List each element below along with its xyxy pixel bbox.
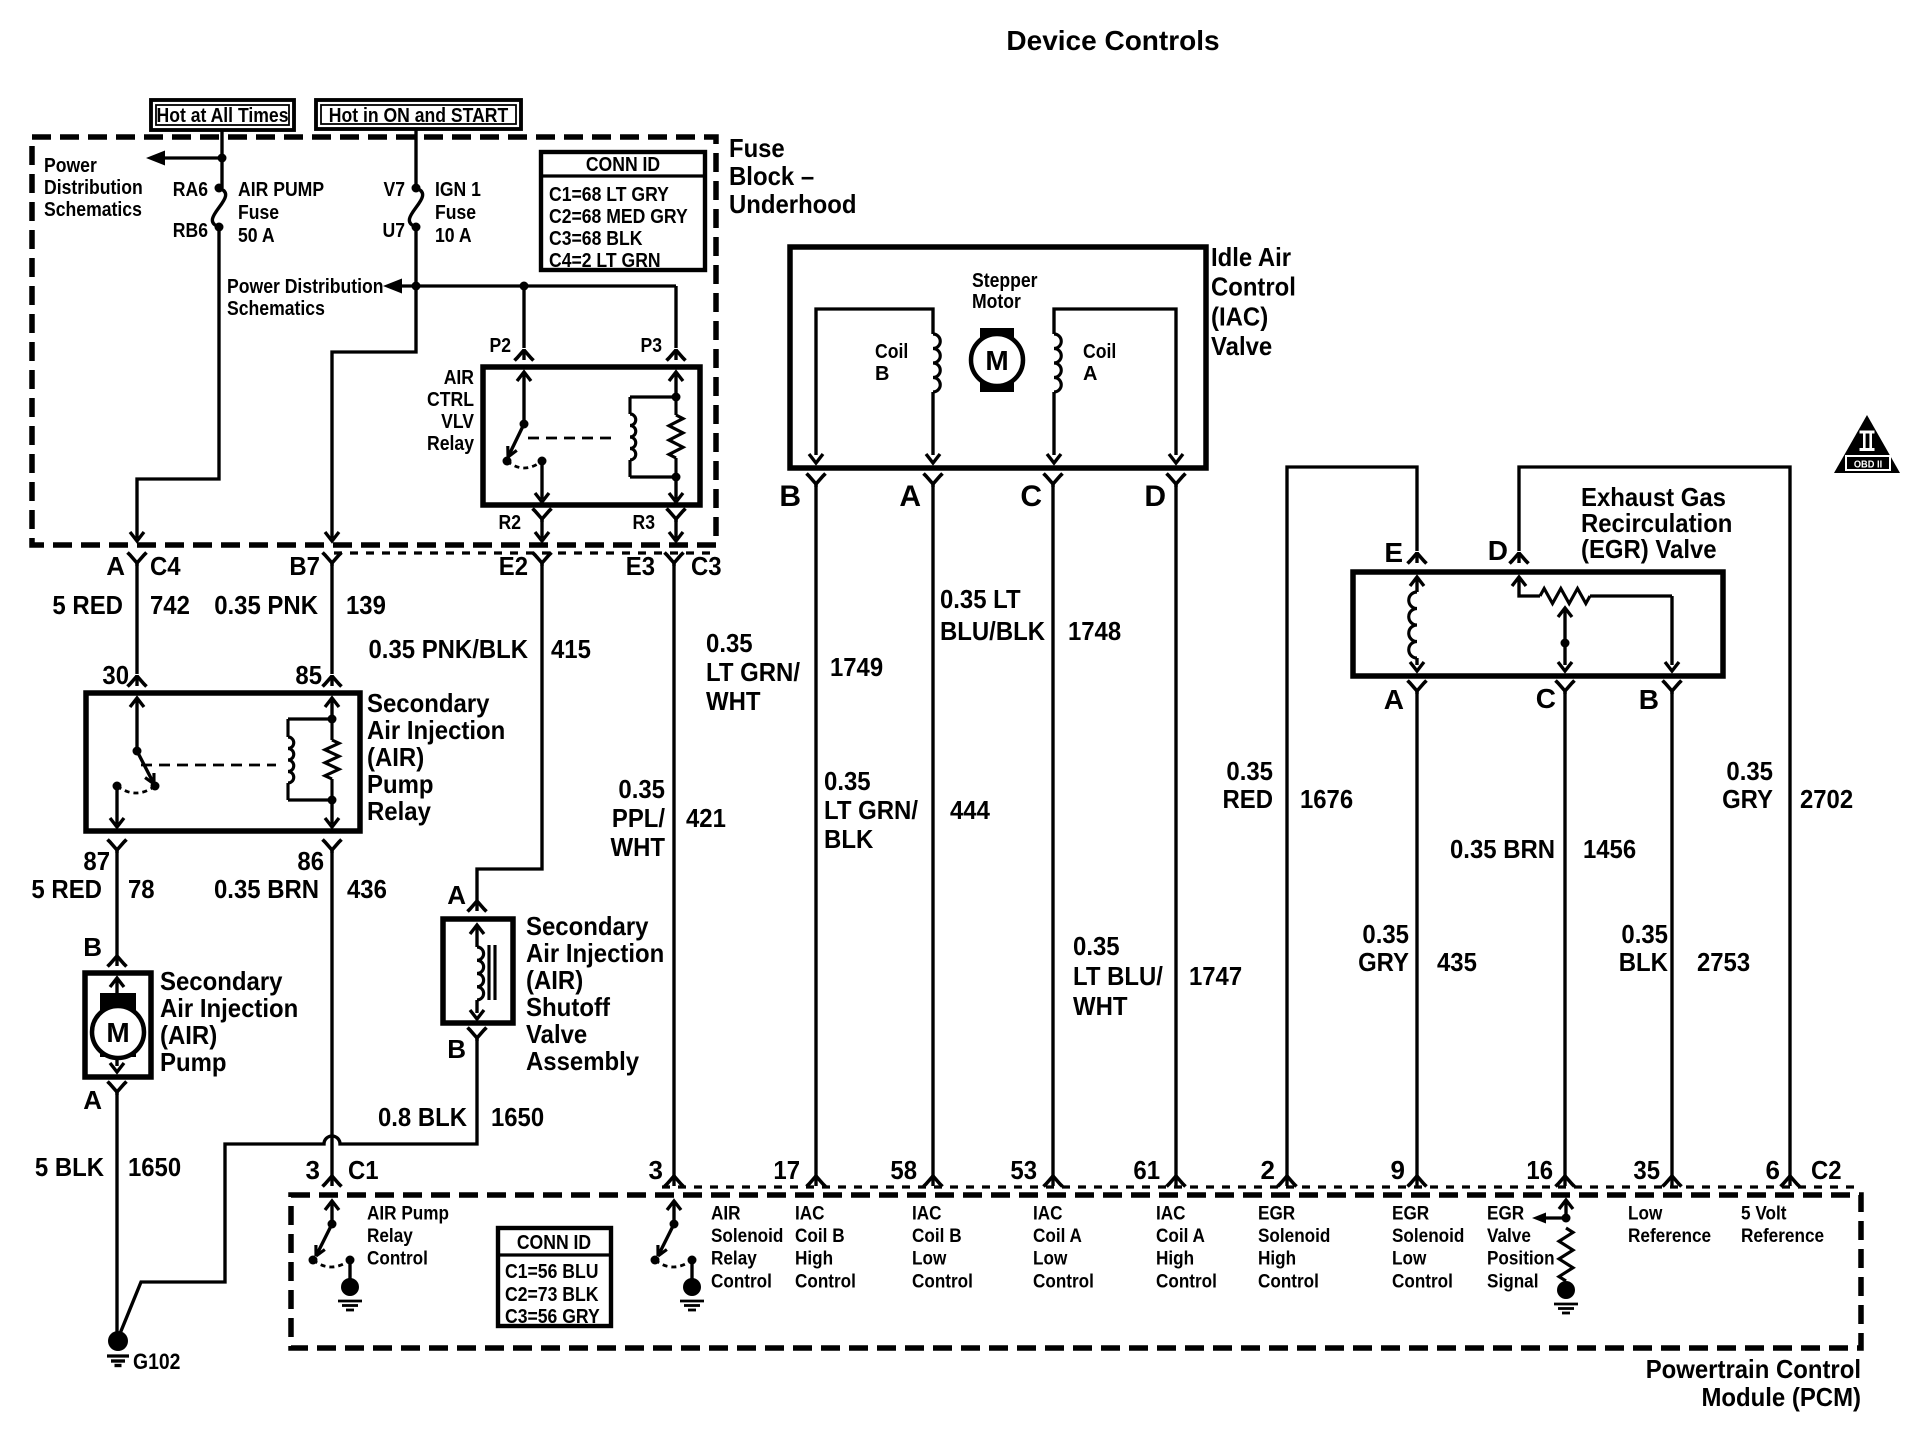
EGR position sensor wiper: [1558, 608, 1572, 671]
svg-text:RA6: RA6: [173, 179, 208, 201]
wire: 0.35 LT GRN/BLK 444 to PCM pin 58: [931, 484, 934, 1180]
svg-text:Schematics: Schematics: [227, 298, 325, 320]
label: Fuse Block - Underhood: [729, 133, 857, 219]
svg-text:0.35 PNK: 0.35 PNK: [214, 590, 318, 620]
label box: Hot in ON and START: [316, 100, 521, 129]
wire: coil bottom to pin 86: [325, 800, 339, 827]
svg-text:C1=56 BLU: C1=56 BLU: [505, 1261, 599, 1283]
svg-text:B: B: [779, 480, 801, 513]
svg-text:Coil B: Coil B: [912, 1225, 962, 1247]
wire: 0.8 BLK 1650 from shutoff valve to G102 (with hop over pin86 wire): [119, 1038, 477, 1336]
connector pin 58 at PCM: [890, 1155, 942, 1187]
label: IAC Coil A Low Control: [1033, 1203, 1094, 1293]
connector R2 below relay: [499, 509, 552, 542]
svg-text:EGR: EGR: [1487, 1203, 1524, 1225]
label: Coil B: [875, 341, 908, 385]
svg-text:IAC: IAC: [912, 1203, 942, 1225]
svg-text:GRY: GRY: [1722, 784, 1773, 814]
label: 0.35 LT BLU/BLK 1748: [940, 584, 1121, 646]
wire: 0.35 PNK/BLK 415 to AIR shutoff valve: [477, 563, 542, 900]
connector pin 3 (C3) at PCM: [649, 1155, 684, 1187]
svg-text:0.35: 0.35: [1073, 931, 1120, 961]
connector pin 17 at PCM: [773, 1155, 825, 1187]
label: IAC Coil B High Control: [795, 1203, 856, 1293]
svg-text:415: 415: [551, 634, 591, 664]
ground G102: [107, 1331, 180, 1374]
svg-text:Control: Control: [367, 1248, 428, 1270]
wire: P2 drop to relay: [522, 286, 525, 348]
svg-text:Fuse: Fuse: [435, 202, 476, 224]
wire: U7 branch down-left exits fuse block as B7: [332, 286, 416, 538]
svg-text:1456: 1456: [1583, 834, 1636, 864]
svg-text:(AIR): (AIR): [160, 1020, 217, 1050]
svg-text:BLU/BLK: BLU/BLK: [940, 616, 1045, 646]
svg-text:Coil: Coil: [875, 341, 908, 363]
connector D at EGR: [1488, 535, 1529, 566]
svg-text:Secondary: Secondary: [526, 911, 649, 941]
relay K2 suppression resistor: [325, 719, 339, 800]
label: EGR Solenoid Low Control: [1392, 1203, 1464, 1293]
svg-text:0.35: 0.35: [1621, 919, 1668, 949]
connector pin 53 at PCM: [1010, 1155, 1062, 1187]
svg-text:0.35: 0.35: [706, 628, 753, 658]
svg-text:2702: 2702: [1800, 784, 1853, 814]
svg-text:PPL/: PPL/: [612, 803, 665, 833]
svg-text:Pump: Pump: [160, 1047, 227, 1077]
wire: power distribution horizontal bus: [399, 284, 676, 287]
connector B at EGR: [1639, 681, 1682, 716]
svg-text:B: B: [83, 932, 102, 962]
svg-text:R3: R3: [633, 512, 656, 534]
svg-text:WHT: WHT: [706, 686, 761, 716]
svg-text:Reference: Reference: [1741, 1225, 1824, 1247]
svg-text:Air Injection: Air Injection: [526, 938, 664, 968]
svg-text:CONN ID: CONN ID: [517, 1232, 591, 1254]
svg-text:LT BLU/: LT BLU/: [1073, 961, 1163, 991]
wire: RB6 down, left, exits fuse block as A/C4: [137, 227, 219, 538]
arrow to Power Distribution Schematics (top left): [146, 151, 222, 166]
svg-text:CONN ID: CONN ID: [586, 154, 660, 176]
wire: 5 RED 78 down to AIR pump: [115, 850, 118, 955]
label: Stepper Motor: [972, 270, 1038, 313]
PCM dashed boundary: Powertrain Control Module: [291, 1195, 1861, 1348]
svg-text:Valve: Valve: [1487, 1225, 1531, 1247]
connector pin 61 at PCM: [1133, 1155, 1185, 1187]
svg-text:1749: 1749: [830, 652, 883, 682]
label: 5 Volt Reference: [1741, 1203, 1824, 1248]
solenoid L1: Secondary Air Injection (AIR) Shutoff Valve Assembly: [443, 919, 513, 1023]
svg-text:53: 53: [1010, 1155, 1037, 1185]
svg-text:Relay: Relay: [711, 1248, 757, 1270]
PCM internal switch: AIR Solenoid Relay Control: [651, 1201, 697, 1279]
table: CONN ID (PCM): [498, 1228, 611, 1328]
svg-text:3: 3: [649, 1155, 663, 1185]
node: junction dot P2 branch: [520, 282, 529, 291]
svg-text:Relay: Relay: [367, 1225, 413, 1247]
wire: U7 down to power distribution node: [414, 227, 417, 286]
connector pin 87: [83, 840, 126, 877]
relay K2 switch: [110, 698, 160, 827]
svg-text:AIR Pump: AIR Pump: [367, 1203, 449, 1225]
svg-text:Coil B: Coil B: [795, 1225, 845, 1247]
node: junction dot on hot feed: [218, 154, 227, 163]
wire: 5 RED 742 down to AIR pump relay pin 30: [135, 563, 138, 674]
svg-text:2: 2: [1261, 1155, 1275, 1185]
wire: relay K1 coil bottom tie: [630, 475, 676, 478]
svg-text:6: 6: [1766, 1155, 1780, 1185]
svg-text:Secondary: Secondary: [160, 966, 283, 996]
svg-text:Relay: Relay: [427, 433, 475, 455]
svg-text:Control: Control: [1156, 1270, 1217, 1292]
svg-text:A: A: [899, 480, 921, 513]
motor M2: IAC stepper motor symbol: [971, 328, 1023, 392]
svg-text:A: A: [1384, 684, 1404, 715]
svg-text:Solenoid: Solenoid: [1392, 1225, 1464, 1247]
wire: coil bottom to R3: [669, 477, 683, 502]
node: K2 coil bottom junction: [328, 796, 337, 805]
svg-text:VLV: VLV: [441, 411, 474, 433]
svg-text:Low: Low: [1392, 1248, 1427, 1270]
relay K1 dashed actuator link: [528, 437, 618, 440]
svg-text:0.35 BRN: 0.35 BRN: [1450, 834, 1555, 864]
svg-text:Hot at All Times: Hot at All Times: [157, 105, 289, 127]
connector pin 85: [330, 675, 333, 686]
wire: 0.35 BRN 436 down to PCM pin 3 C1: [330, 850, 333, 1180]
svg-text:5 RED: 5 RED: [52, 590, 123, 620]
wire: 0.35 LT GRN/WHT 1749 to PCM pin 17: [814, 484, 817, 1180]
svg-text:EGR: EGR: [1258, 1203, 1295, 1225]
svg-text:BLK: BLK: [1619, 947, 1669, 977]
relay K2 coil: [288, 719, 294, 800]
fuse block underhood dashed boundary: [32, 137, 716, 545]
svg-text:A: A: [83, 1085, 102, 1115]
svg-text:Low: Low: [912, 1248, 947, 1270]
coil: IAC Coil A: [1047, 309, 1183, 463]
svg-text:Motor: Motor: [972, 291, 1021, 313]
svg-text:AIR: AIR: [444, 367, 475, 389]
svg-text:5 Volt: 5 Volt: [1741, 1203, 1787, 1225]
wire: 0.35 PNK 139 down to relay pin 85: [330, 563, 333, 674]
svg-text:Coil A: Coil A: [1033, 1225, 1082, 1247]
label: IAC Coil A High Control: [1156, 1203, 1217, 1293]
svg-text:A: A: [106, 551, 125, 581]
svg-text:Control: Control: [711, 1270, 772, 1292]
motor M1: Secondary Air Injection (AIR) Pump: [85, 973, 151, 1077]
PCM connector line (thin dashed): [662, 1185, 1858, 1188]
svg-text:WHT: WHT: [611, 832, 666, 862]
ground at AIR pump relay control driver: [341, 1278, 359, 1296]
connector E2: [499, 551, 552, 581]
ground at EGR position signal divider: [1557, 1281, 1575, 1299]
svg-text:Position: Position: [1487, 1248, 1555, 1270]
wire: K2 coil bottom tie: [288, 798, 332, 801]
connector pin 9 at PCM: [1391, 1155, 1427, 1187]
fuse: IGN 1 Fuse 10 A (V7-U7): [383, 179, 481, 247]
svg-text:C3: C3: [691, 551, 722, 581]
label: 0.35 RED 1676: [1223, 756, 1354, 814]
svg-text:D: D: [1488, 535, 1508, 566]
label: Low Reference: [1628, 1203, 1711, 1248]
svg-text:C4: C4: [150, 551, 181, 581]
svg-text:B: B: [447, 1034, 466, 1064]
svg-text:5 BLK: 5 BLK: [35, 1152, 104, 1182]
svg-text:R2: R2: [499, 512, 522, 534]
svg-text:1747: 1747: [1189, 961, 1242, 991]
svg-text:17: 17: [773, 1155, 800, 1185]
wire: 0.35 LT BLU/BLK 1748 to PCM pin 53: [1051, 484, 1054, 1180]
table: CONN ID (fuse block): [541, 152, 705, 272]
wire: P3 into coil top: [669, 372, 683, 397]
svg-text:0.35: 0.35: [1362, 919, 1409, 949]
svg-text:OBD II: OBD II: [1854, 459, 1882, 471]
fuse: AIR PUMP Fuse 50 A (RA6-RB6): [173, 179, 324, 247]
svg-text:Secondary: Secondary: [367, 688, 490, 718]
svg-text:Relay: Relay: [367, 796, 431, 826]
svg-text:AIR PUMP: AIR PUMP: [238, 179, 324, 201]
wire: 0.35 RED 1676 from PCM pin 2 up and over to EGR pin E: [1287, 467, 1417, 1180]
svg-text:IAC: IAC: [1033, 1203, 1063, 1225]
relay K1 switch: [503, 372, 550, 502]
wire: P3 drop to relay: [674, 286, 677, 348]
svg-text:WHT: WHT: [1073, 991, 1128, 1021]
EGR solenoid coil E-A: [1409, 577, 1424, 671]
label: Coil A: [1083, 341, 1116, 385]
svg-text:Fuse: Fuse: [729, 133, 785, 163]
label: AIR Pump Relay Control: [367, 1203, 449, 1270]
svg-text:35: 35: [1633, 1155, 1660, 1185]
label: IAC Coil B Low Control: [912, 1203, 973, 1293]
svg-text:87: 87: [83, 846, 110, 876]
label: 0.35 GRY 435: [1358, 919, 1477, 977]
svg-text:Assembly: Assembly: [526, 1046, 640, 1076]
svg-text:Underhood: Underhood: [729, 189, 857, 219]
svg-text:78: 78: [128, 874, 155, 904]
svg-text:10 A: 10 A: [435, 225, 472, 247]
label: 0.35 LT GRN/BLK 444: [824, 766, 990, 854]
svg-text:1650: 1650: [128, 1152, 181, 1182]
svg-text:A: A: [1083, 363, 1097, 385]
svg-text:C: C: [1020, 480, 1042, 513]
svg-text:16: 16: [1526, 1155, 1553, 1185]
svg-text:LT GRN/: LT GRN/: [706, 657, 800, 687]
svg-text:IAC: IAC: [795, 1203, 825, 1225]
svg-text:0.35 LT: 0.35 LT: [940, 584, 1021, 614]
svg-text:444: 444: [950, 795, 990, 825]
label: 0.35 LT GRN/WHT 1749: [706, 628, 883, 716]
svg-text:Valve: Valve: [526, 1019, 587, 1049]
wire: Hot at All Times feed down to AIR PUMP fuse: [220, 130, 223, 188]
connector pin 35 at PCM: [1633, 1155, 1681, 1187]
svg-text:Pump: Pump: [367, 769, 434, 799]
node: coil bottom junction: [672, 473, 681, 482]
svg-text:1650: 1650: [491, 1102, 544, 1132]
svg-text:0.35: 0.35: [1226, 756, 1273, 786]
label: 5 RED 742: [52, 590, 190, 620]
svg-text:(AIR): (AIR): [526, 965, 583, 995]
svg-text:Control: Control: [1258, 1270, 1319, 1292]
svg-text:1676: 1676: [1300, 784, 1353, 814]
svg-text:V7: V7: [384, 179, 406, 201]
svg-text:Distribution: Distribution: [44, 177, 143, 199]
coil: IAC Coil B: [809, 309, 940, 463]
svg-text:LT GRN/: LT GRN/: [824, 795, 918, 825]
svg-text:U7: U7: [383, 220, 406, 242]
wire: pin 85 into coil top: [325, 698, 339, 719]
svg-text:Low: Low: [1033, 1248, 1068, 1270]
svg-text:B7: B7: [289, 551, 320, 581]
connector B at AIR pump: [83, 932, 126, 967]
svg-text:D: D: [1144, 480, 1166, 513]
svg-text:M: M: [985, 345, 1008, 376]
svg-text:P2: P2: [490, 335, 512, 357]
label: 0.35 BLK 2753: [1619, 919, 1750, 977]
node: coil top junction: [672, 393, 681, 402]
svg-text:30: 30: [102, 660, 129, 690]
label: 5 BLK 1650: [35, 1152, 181, 1182]
wire: 0.35 GRY 435 to PCM pin 9: [1415, 691, 1418, 1180]
svg-text:Control: Control: [1033, 1270, 1094, 1292]
label: Power Distribution Schematics (mid): [227, 276, 384, 320]
svg-text:86: 86: [297, 846, 324, 876]
connector pin 86: [297, 840, 341, 877]
svg-text:Low: Low: [1628, 1203, 1663, 1225]
svg-text:Coil A: Coil A: [1156, 1225, 1205, 1247]
svg-text:(IAC): (IAC): [1211, 301, 1268, 331]
wire: 0.35 LT BLU/WHT 1747 to PCM pin 61: [1174, 484, 1177, 1180]
svg-text:Air Injection: Air Injection: [160, 993, 298, 1023]
connector E at EGR: [1384, 537, 1426, 568]
connector line below fuse block (thin dashed): [334, 551, 714, 554]
connector C at EGR: [1536, 681, 1575, 715]
svg-text:A: A: [447, 880, 466, 910]
svg-text:Control: Control: [1392, 1270, 1453, 1292]
label: Secondary Air Injection (AIR) Pump: [160, 966, 298, 1077]
connector pin 30: [135, 675, 138, 686]
svg-text:EGR: EGR: [1392, 1203, 1429, 1225]
svg-text:High: High: [1156, 1248, 1194, 1270]
arrow: wire exits fuse block at A: [130, 532, 144, 541]
svg-text:742: 742: [150, 590, 190, 620]
svg-text:Hot in ON and START: Hot in ON and START: [329, 105, 509, 127]
connector E3/C3: [626, 551, 722, 581]
svg-text:High: High: [795, 1248, 833, 1270]
connector A/C4: [106, 551, 181, 581]
label: 0.8 BLK 1650: [378, 1102, 544, 1132]
svg-text:High: High: [1258, 1248, 1296, 1270]
svg-text:E3: E3: [626, 551, 655, 581]
node: junction dot U7/bus: [412, 282, 421, 291]
svg-text:1748: 1748: [1068, 616, 1121, 646]
svg-text:IGN 1: IGN 1: [435, 179, 481, 201]
svg-text:58: 58: [890, 1155, 917, 1185]
connector pin 6 C2 at PCM: [1766, 1155, 1842, 1187]
connector A at IAC: [899, 474, 942, 514]
label: EGR Solenoid High Control: [1258, 1203, 1330, 1293]
connector pin 3 C1 at PCM: [306, 1155, 379, 1187]
svg-text:C4=2 LT GRN: C4=2 LT GRN: [549, 250, 661, 272]
svg-text:Solenoid: Solenoid: [1258, 1225, 1330, 1247]
relay K1: AIR CTRL VLV Relay box: [483, 367, 700, 505]
svg-text:Power Distribution: Power Distribution: [227, 276, 384, 298]
svg-text:B: B: [1639, 684, 1659, 715]
wire: 0.35 BLK 2753 to PCM pin 35: [1670, 691, 1673, 1180]
svg-text:AIR: AIR: [711, 1203, 741, 1225]
label box: Hot at All Times: [151, 100, 294, 130]
svg-text:0.35 BRN: 0.35 BRN: [214, 874, 319, 904]
label: 0.35 PNK 139: [214, 590, 386, 620]
label: Exhaust Gas Recirculation (EGR) Valve: [1581, 482, 1732, 564]
wire: K2 coil top tie: [288, 717, 332, 720]
EGR position sensor: D feed and resistor: [1512, 577, 1679, 671]
connector B7: [289, 551, 341, 581]
svg-text:C2: C2: [1811, 1155, 1842, 1185]
label: 0.35 PPL/WHT 421: [611, 774, 726, 862]
svg-text:P3: P3: [641, 335, 663, 357]
label: 0.35 GRY 2702: [1722, 756, 1853, 814]
label: Powertrain Control Module (PCM): [1646, 1354, 1861, 1412]
arrow: wire exits fuse block at B7: [325, 532, 339, 541]
svg-text:Reference: Reference: [1628, 1225, 1711, 1247]
svg-text:B: B: [875, 363, 889, 385]
svg-text:Idle Air: Idle Air: [1211, 242, 1291, 272]
label: Idle Air Control (IAC) Valve: [1211, 242, 1296, 361]
svg-text:3: 3: [306, 1155, 320, 1185]
wire: relay K1 coil top tie: [630, 395, 676, 398]
svg-text:Stepper: Stepper: [972, 270, 1038, 292]
svg-text:Schematics: Schematics: [44, 199, 142, 221]
ground at AIR solenoid relay control driver: [683, 1278, 701, 1296]
svg-text:139: 139: [346, 590, 386, 620]
svg-text:(AIR): (AIR): [367, 742, 424, 772]
svg-text:Valve: Valve: [1211, 331, 1272, 361]
label: 0.35 BRN 1456: [1450, 834, 1636, 864]
connector R3 below relay: [633, 509, 686, 542]
svg-text:E: E: [1384, 537, 1403, 568]
label: 0.35 PNK/BLK 415: [369, 634, 591, 664]
svg-text:85: 85: [295, 660, 322, 690]
connector pin 16 at PCM: [1526, 1155, 1574, 1187]
svg-text:E2: E2: [499, 551, 528, 581]
wire: 0.35 PPL/WHT 421 down to PCM pin 3: [672, 563, 675, 1180]
svg-text:C1: C1: [348, 1155, 379, 1185]
IAC valve box: Idle Air Control (IAC) Valve: [790, 247, 1206, 468]
label: Secondary Air Injection (AIR) Pump Relay: [367, 688, 505, 826]
svg-text:(EGR) Valve: (EGR) Valve: [1581, 534, 1717, 564]
svg-text:435: 435: [1437, 947, 1477, 977]
svg-text:Control: Control: [795, 1270, 856, 1292]
svg-text:0.35 PNK/BLK: 0.35 PNK/BLK: [369, 634, 529, 664]
svg-text:Signal: Signal: [1487, 1270, 1539, 1292]
label: Power Distribution Schematics (top left): [44, 155, 143, 221]
svg-text:Solenoid: Solenoid: [711, 1225, 783, 1247]
PCM internal: EGR valve position signal pull-up: [1532, 1200, 1573, 1281]
connector B at AIR shutoff valve: [447, 1028, 486, 1065]
svg-text:436: 436: [347, 874, 387, 904]
svg-text:Control: Control: [1211, 272, 1296, 302]
connector A at AIR pump: [83, 1082, 126, 1116]
svg-text:9: 9: [1391, 1155, 1405, 1185]
svg-text:421: 421: [686, 803, 726, 833]
arrow to Power Distribution Schematics (mid): [383, 279, 402, 294]
svg-text:0.35: 0.35: [824, 766, 871, 796]
label: 0.35 LT BLU/WHT 1747: [1073, 931, 1242, 1021]
connector A at AIR shutoff valve: [447, 880, 486, 912]
svg-text:Control: Control: [912, 1270, 973, 1292]
svg-text:RED: RED: [1223, 784, 1274, 814]
svg-text:Block –: Block –: [729, 161, 814, 191]
svg-text:G102: G102: [133, 1349, 180, 1374]
label: EGR Valve Position Signal: [1487, 1203, 1555, 1293]
